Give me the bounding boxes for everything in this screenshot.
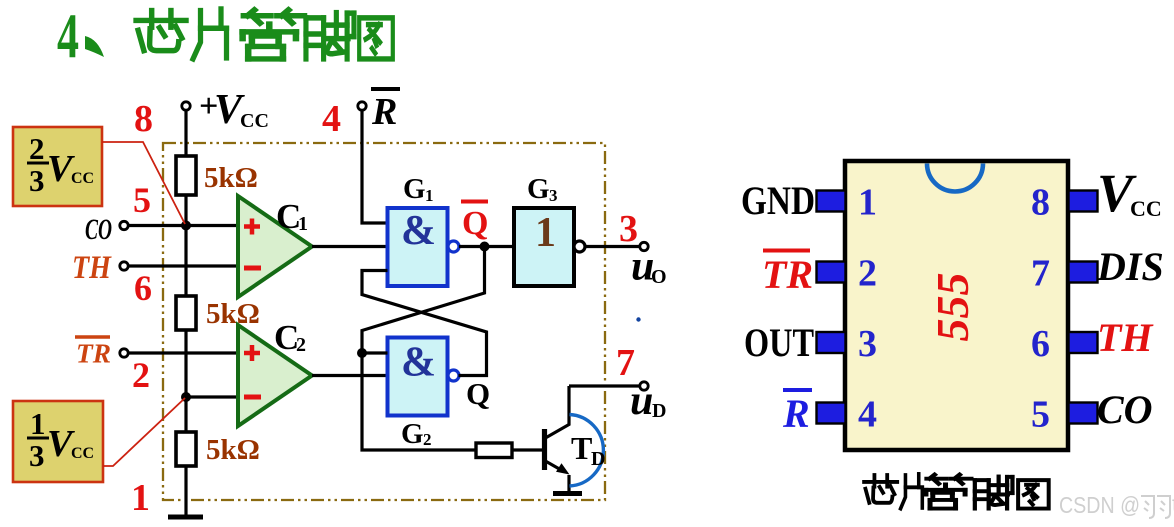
svg-text:5kΩ: 5kΩ bbox=[204, 162, 258, 194]
base resistor of TD bbox=[476, 443, 512, 458]
svg-text:T: T bbox=[571, 430, 592, 466]
node G2 input junction dot bbox=[357, 348, 367, 358]
svg-text:4: 4 bbox=[322, 98, 341, 140]
svg-text:3: 3 bbox=[549, 186, 558, 205]
svg-text:R: R bbox=[782, 391, 810, 436]
C1 plus input mark bbox=[244, 224, 260, 229]
title dun comma bbox=[85, 36, 104, 57]
IC pin 6 lead bbox=[1069, 332, 1098, 353]
svg-text:R: R bbox=[371, 91, 397, 133]
node 2/3 Vcc junction dot bbox=[181, 221, 191, 231]
svg-text:u: u bbox=[630, 378, 653, 424]
svg-text:Q: Q bbox=[466, 376, 490, 411]
wire R bar (pin 4) to G1 bbox=[362, 108, 388, 223]
svg-text:1: 1 bbox=[298, 213, 308, 235]
IC pin 3 lead bbox=[817, 332, 846, 353]
svg-text:2: 2 bbox=[29, 131, 45, 166]
wire C1 output to G1 bbox=[312, 245, 387, 248]
IC pin 5 lead bbox=[1069, 403, 1098, 424]
svg-text:TR: TR bbox=[762, 252, 813, 297]
svg-text:3: 3 bbox=[29, 163, 45, 198]
annotation box 1/3 Vcc bbox=[13, 401, 103, 482]
svg-text:6: 6 bbox=[1031, 323, 1050, 365]
title char guan bbox=[243, 10, 304, 59]
caption char guan bbox=[926, 475, 971, 509]
C1 minus input mark bbox=[244, 266, 261, 271]
svg-text:G: G bbox=[527, 173, 550, 205]
resistor R2 5k bbox=[176, 296, 196, 330]
wire TH to comparator C1 - bbox=[128, 264, 238, 267]
svg-text:2: 2 bbox=[296, 334, 306, 356]
caption char tu bbox=[1018, 480, 1049, 508]
wire C2 output to G2 bbox=[312, 374, 387, 377]
svg-text:1: 1 bbox=[858, 182, 877, 224]
comparator C2 bbox=[238, 325, 312, 426]
wire base resistor to base bbox=[512, 448, 543, 451]
svg-text:555: 555 bbox=[927, 273, 978, 342]
wire Q cross-couple to G1 input bbox=[362, 271, 487, 376]
svg-text:CC: CC bbox=[240, 110, 269, 132]
terminal pin 4 (R bar) bbox=[358, 102, 366, 110]
svg-text:CO: CO bbox=[85, 213, 112, 246]
ground at divider bottom bbox=[168, 515, 203, 520]
wire G1 output (Q bar) to G3 bbox=[459, 245, 514, 248]
terminal pin 6 (TH) bbox=[120, 262, 128, 270]
terminal pin 5 (CO) bbox=[120, 221, 128, 229]
G3 output bubble bbox=[574, 241, 585, 252]
terminal pin 2 (TR bar) bbox=[120, 349, 128, 357]
title char pian bbox=[193, 9, 227, 59]
svg-text:&: & bbox=[401, 340, 436, 386]
svg-text:5: 5 bbox=[1031, 394, 1050, 436]
dash-dot boundary of 555 internals bbox=[163, 143, 605, 500]
svg-text:GND: GND bbox=[741, 178, 815, 223]
caption char xin bbox=[864, 475, 897, 503]
C2 minus input mark bbox=[244, 395, 261, 400]
stray dot bbox=[636, 317, 640, 321]
svg-text:1: 1 bbox=[535, 210, 556, 256]
C2 plus input mark bbox=[244, 351, 260, 356]
TD collector bbox=[545, 386, 570, 439]
svg-text:8: 8 bbox=[134, 98, 153, 140]
svg-text:7: 7 bbox=[1031, 253, 1050, 295]
node Q bar junction dot bbox=[480, 242, 490, 252]
wire Q bar cross-couple to G2 input and transistor base bbox=[362, 247, 485, 451]
svg-text:CO: CO bbox=[1097, 387, 1153, 432]
svg-text:TH: TH bbox=[72, 250, 112, 286]
wire collector to pin 7 bbox=[569, 384, 640, 387]
ground at TD emitter bbox=[553, 491, 582, 496]
svg-text:3: 3 bbox=[858, 323, 877, 365]
title char tu bbox=[359, 18, 393, 59]
svg-text:6: 6 bbox=[134, 268, 152, 308]
caption char jiao bbox=[975, 477, 1013, 509]
svg-text:8: 8 bbox=[1031, 182, 1050, 224]
annotation box 2/3 Vcc bbox=[13, 127, 102, 206]
buffer gate G3 bbox=[514, 208, 574, 286]
TD emitter with arrow bbox=[545, 461, 563, 471]
NAND gate G1 bbox=[388, 208, 448, 286]
caption char pian bbox=[901, 474, 923, 509]
G2 output bubble bbox=[448, 370, 459, 381]
node 1/3 Vcc junction dot bbox=[181, 392, 191, 402]
pointer line from 2/3 box to node bbox=[102, 142, 185, 224]
svg-text:TH: TH bbox=[1097, 315, 1154, 360]
wire: Vcc rail / divider bbox=[184, 108, 187, 517]
title char jiao bbox=[306, 13, 354, 59]
resistor R1 5k bbox=[176, 156, 196, 195]
svg-text:CSDN @: CSDN @ bbox=[1059, 492, 1140, 518]
terminal pin 7 bbox=[640, 382, 648, 390]
wire TR to comparator C2 + bbox=[128, 351, 238, 354]
resistor R3 5k bbox=[176, 432, 196, 466]
watermark yu glyph bbox=[1141, 496, 1170, 518]
svg-text:3: 3 bbox=[29, 438, 45, 473]
IC pin 4 lead bbox=[817, 403, 846, 424]
svg-text:5kΩ: 5kΩ bbox=[206, 434, 260, 466]
IC pin 2 lead bbox=[817, 262, 846, 283]
svg-text:5kΩ: 5kΩ bbox=[206, 298, 260, 330]
NAND gate G2 bbox=[388, 338, 448, 416]
svg-text:TR: TR bbox=[76, 339, 111, 369]
terminal pin 8 (+Vcc) bbox=[182, 102, 190, 110]
svg-text:O: O bbox=[651, 266, 667, 288]
IC pin 8 lead bbox=[1069, 191, 1098, 212]
IC pin 1 lead bbox=[817, 191, 846, 212]
transistor TD base bar bbox=[542, 429, 547, 470]
svg-text:DIS: DIS bbox=[1096, 244, 1164, 289]
svg-text:1: 1 bbox=[425, 186, 434, 205]
svg-text:CC: CC bbox=[1130, 196, 1162, 221]
svg-text:OUT: OUT bbox=[744, 320, 814, 365]
comparator C1 bbox=[238, 196, 312, 297]
IC 555 body bbox=[845, 161, 1068, 450]
notch arc bbox=[927, 164, 983, 192]
svg-text:2: 2 bbox=[858, 253, 877, 295]
svg-text:&: & bbox=[401, 208, 436, 254]
TD body arc bbox=[570, 415, 604, 487]
title char xin bbox=[136, 11, 186, 51]
svg-text:5: 5 bbox=[133, 180, 151, 220]
svg-text:D: D bbox=[591, 448, 605, 470]
svg-text:4: 4 bbox=[57, 1, 79, 71]
svg-text:4: 4 bbox=[858, 394, 877, 436]
svg-text:Q: Q bbox=[462, 205, 488, 242]
svg-text:CC: CC bbox=[71, 170, 94, 187]
svg-text:1: 1 bbox=[30, 406, 46, 441]
pointer line from 1/3 box to node bbox=[103, 398, 185, 466]
wire 1/3 node to comparator C2 - bbox=[186, 395, 238, 398]
wire G3 output to pin 3 bbox=[585, 245, 640, 248]
wire CO to comparator C1 + bbox=[128, 224, 238, 227]
wire junction to G2 input bbox=[362, 351, 388, 354]
svg-text:G: G bbox=[401, 418, 424, 450]
terminal pin 3 bbox=[640, 242, 648, 250]
IC pin 7 lead bbox=[1069, 262, 1098, 283]
svg-text:D: D bbox=[652, 400, 666, 422]
svg-text:CC: CC bbox=[71, 445, 94, 462]
svg-text:2: 2 bbox=[132, 355, 150, 395]
svg-text:1: 1 bbox=[131, 477, 150, 519]
svg-text:G: G bbox=[403, 173, 426, 205]
G1 output bubble bbox=[448, 241, 459, 252]
svg-text:2: 2 bbox=[423, 430, 432, 449]
